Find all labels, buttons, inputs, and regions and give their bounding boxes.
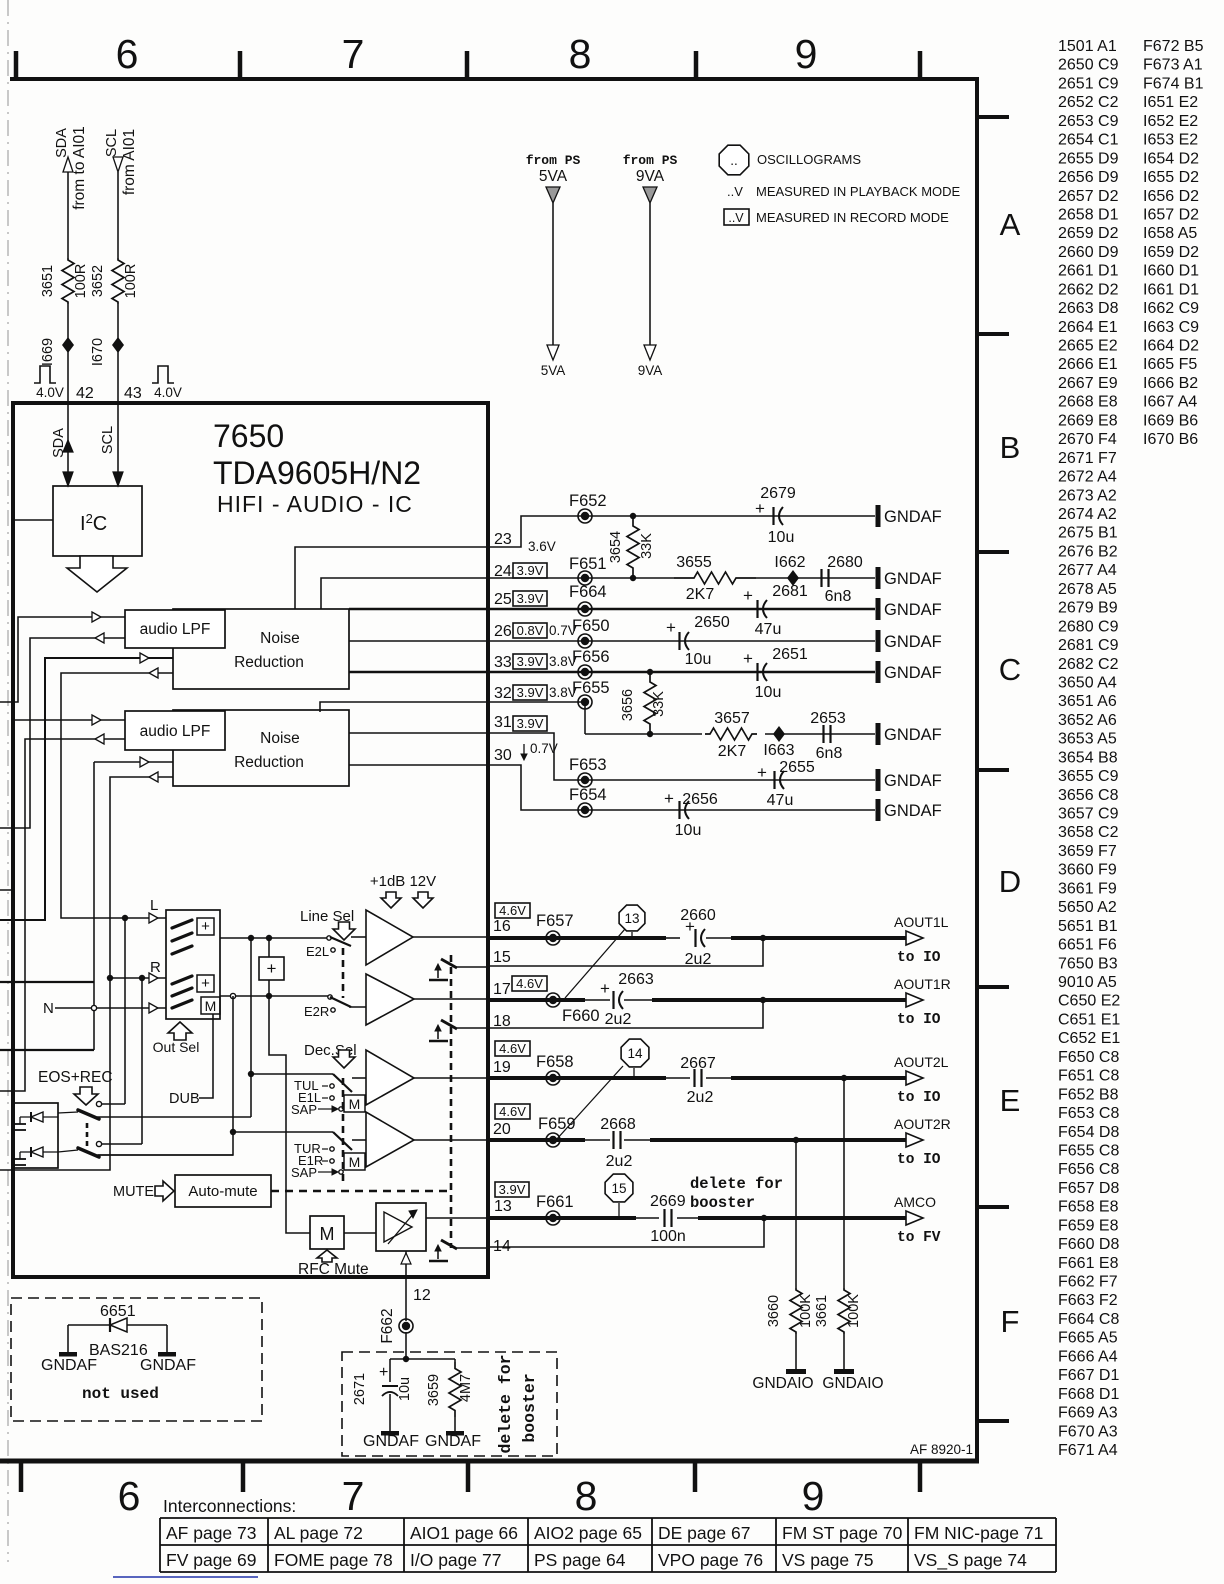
svg-text:Reduction: Reduction <box>234 754 304 771</box>
svg-text:L: L <box>150 897 158 914</box>
svg-text:F671 A4: F671 A4 <box>1058 1442 1118 1459</box>
svg-text:SDA: SDA <box>51 428 67 458</box>
svg-text:SAP: SAP <box>291 1102 317 1117</box>
svg-text:F654 D8: F654 D8 <box>1058 1124 1119 1141</box>
svg-text:3657 C9: 3657 C9 <box>1058 806 1119 823</box>
svg-text:8: 8 <box>575 1473 598 1519</box>
svg-text:3651: 3651 <box>40 265 56 297</box>
svg-text:F656 C8: F656 C8 <box>1058 1161 1119 1178</box>
svg-text:to IO: to IO <box>897 950 941 966</box>
svg-text:F670 A3: F670 A3 <box>1058 1423 1118 1440</box>
svg-text:2651: 2651 <box>772 646 808 663</box>
svg-text:F668 D1: F668 D1 <box>1058 1386 1119 1403</box>
svg-text:2654 C1: 2654 C1 <box>1058 132 1119 149</box>
svg-text:2671: 2671 <box>352 1373 368 1405</box>
svg-text:C: C <box>999 652 1021 687</box>
svg-text:SDA: SDA <box>54 128 70 158</box>
svg-text:6: 6 <box>116 31 139 77</box>
svg-text:3654: 3654 <box>608 531 624 563</box>
svg-text:+: + <box>379 1364 388 1381</box>
svg-text:2652 C2: 2652 C2 <box>1058 94 1119 111</box>
svg-text:2681: 2681 <box>772 583 808 600</box>
svg-text:F: F <box>1001 1304 1020 1339</box>
svg-text:C651 E1: C651 E1 <box>1058 1011 1120 1028</box>
svg-text:+: + <box>743 649 753 668</box>
svg-text:0.8V: 0.8V <box>517 623 544 638</box>
svg-text:2660 D9: 2660 D9 <box>1058 244 1119 261</box>
svg-text:VPO page 76: VPO page 76 <box>658 1550 763 1570</box>
svg-text:to IO: to IO <box>897 1152 941 1168</box>
svg-text:6: 6 <box>118 1473 141 1519</box>
svg-text:2655: 2655 <box>779 759 815 776</box>
svg-text:I658 A5: I658 A5 <box>1143 225 1197 242</box>
svg-text:2655 D9: 2655 D9 <box>1058 150 1119 167</box>
svg-text:..: .. <box>730 153 738 168</box>
svg-text:C650 E2: C650 E2 <box>1058 993 1120 1010</box>
svg-text:M: M <box>320 1224 335 1244</box>
svg-text:F664 C8: F664 C8 <box>1058 1311 1119 1328</box>
svg-text:15: 15 <box>611 1181 626 1196</box>
svg-text:from PS: from PS <box>526 153 581 168</box>
svg-text:E: E <box>1000 1083 1021 1118</box>
svg-text:from AI01: from AI01 <box>121 129 138 195</box>
svg-text:23: 23 <box>494 531 512 548</box>
svg-text:1501 A1: 1501 A1 <box>1058 38 1117 55</box>
svg-text:Auto-mute: Auto-mute <box>188 1183 257 1200</box>
svg-text:Noise: Noise <box>260 630 300 647</box>
svg-text:3.6V: 3.6V <box>528 539 556 554</box>
svg-text:13: 13 <box>624 911 639 926</box>
svg-text:from to AI01: from to AI01 <box>71 126 88 210</box>
svg-text:3660: 3660 <box>766 1295 782 1327</box>
svg-text:MUTE: MUTE <box>113 1184 154 1200</box>
svg-text:I661 D1: I661 D1 <box>1143 281 1199 298</box>
svg-text:2669: 2669 <box>650 1193 686 1210</box>
svg-text:audio LPF: audio LPF <box>140 723 211 740</box>
svg-text:3655: 3655 <box>676 554 712 571</box>
svg-text:2679: 2679 <box>760 485 796 502</box>
svg-text:2673 A2: 2673 A2 <box>1058 487 1117 504</box>
svg-text:2659 D2: 2659 D2 <box>1058 225 1119 242</box>
svg-text:AF page 73: AF page 73 <box>166 1523 256 1543</box>
svg-text:DE page 67: DE page 67 <box>658 1523 750 1543</box>
svg-text:2u2: 2u2 <box>687 1089 714 1106</box>
svg-text:9VA: 9VA <box>636 168 665 185</box>
svg-text:M: M <box>205 998 217 1014</box>
svg-text:3652 A6: 3652 A6 <box>1058 712 1117 729</box>
svg-text:2668: 2668 <box>600 1116 636 1133</box>
svg-text:HIFI - AUDIO - IC: HIFI - AUDIO - IC <box>217 491 413 517</box>
svg-text:F674 B1: F674 B1 <box>1143 75 1204 92</box>
svg-text:2674 A2: 2674 A2 <box>1058 506 1117 523</box>
svg-text:3660 F9: 3660 F9 <box>1058 862 1117 879</box>
svg-text:F663 F2: F663 F2 <box>1058 1292 1118 1309</box>
svg-text:30: 30 <box>494 747 512 764</box>
svg-text:6651: 6651 <box>100 1303 136 1320</box>
svg-text:F657 D8: F657 D8 <box>1058 1180 1119 1197</box>
svg-text:GNDAF: GNDAF <box>884 772 942 790</box>
svg-text:4.0V: 4.0V <box>154 385 182 400</box>
svg-text:2u2: 2u2 <box>606 1153 633 1170</box>
svg-text:5651 B1: 5651 B1 <box>1058 918 1118 935</box>
svg-text:31: 31 <box>494 714 512 731</box>
svg-text:GNDAF: GNDAF <box>140 1357 196 1374</box>
svg-text:AOUT1R: AOUT1R <box>894 976 951 992</box>
svg-text:I/O page 77: I/O page 77 <box>410 1550 501 1570</box>
svg-text:10u: 10u <box>685 651 712 668</box>
svg-text:delete for: delete for <box>496 1354 515 1453</box>
svg-text:2666 E1: 2666 E1 <box>1058 356 1118 373</box>
svg-text:C652 E1: C652 E1 <box>1058 1030 1120 1047</box>
svg-text:2653: 2653 <box>810 710 846 727</box>
svg-text:2653 C9: 2653 C9 <box>1058 113 1119 130</box>
svg-text:5VA: 5VA <box>539 168 568 185</box>
svg-text:6651 F6: 6651 F6 <box>1058 937 1117 954</box>
svg-text:2669 E8: 2669 E8 <box>1058 412 1118 429</box>
svg-text:GNDAF: GNDAF <box>884 802 942 820</box>
svg-text:I666 B2: I666 B2 <box>1143 375 1198 392</box>
svg-text:2663: 2663 <box>618 971 654 988</box>
svg-text:+: + <box>201 918 210 935</box>
svg-text:SAP: SAP <box>291 1165 317 1180</box>
svg-text:3.9V: 3.9V <box>517 716 544 731</box>
svg-text:2662 D2: 2662 D2 <box>1058 281 1119 298</box>
svg-text:47u: 47u <box>755 621 782 638</box>
svg-text:I657 D2: I657 D2 <box>1143 206 1199 223</box>
svg-text:..V: ..V <box>727 184 743 199</box>
svg-text:GNDAF: GNDAF <box>363 1433 419 1450</box>
svg-text:GNDAF: GNDAF <box>884 726 942 744</box>
svg-text:2660: 2660 <box>680 907 716 924</box>
svg-text:AMCO: AMCO <box>894 1194 936 1210</box>
svg-text:R: R <box>150 959 161 976</box>
svg-text:10u: 10u <box>675 822 702 839</box>
svg-text:2680 C9: 2680 C9 <box>1058 618 1119 635</box>
svg-text:F665 A5: F665 A5 <box>1058 1330 1118 1347</box>
svg-text:I664 D2: I664 D2 <box>1143 338 1199 355</box>
svg-text:5650 A2: 5650 A2 <box>1058 899 1117 916</box>
svg-text:33K: 33K <box>639 533 655 559</box>
svg-text:47u: 47u <box>767 792 794 809</box>
svg-text:2651 C9: 2651 C9 <box>1058 75 1119 92</box>
svg-text:9: 9 <box>802 1473 825 1519</box>
svg-text:3653 A5: 3653 A5 <box>1058 731 1117 748</box>
svg-text:delete for: delete for <box>690 1175 783 1193</box>
svg-text:audio LPF: audio LPF <box>140 621 211 638</box>
svg-text:GNDAIO: GNDAIO <box>752 1375 813 1392</box>
svg-text:10u: 10u <box>768 529 795 546</box>
svg-text:F666 A4: F666 A4 <box>1058 1348 1118 1365</box>
svg-text:I653 E2: I653 E2 <box>1143 132 1198 149</box>
svg-text:9VA: 9VA <box>638 363 663 378</box>
svg-text:100R: 100R <box>123 264 139 299</box>
svg-text:14: 14 <box>627 1046 643 1061</box>
svg-text:2680: 2680 <box>827 554 863 571</box>
svg-text:GNDAF: GNDAF <box>41 1357 97 1374</box>
svg-text:AL page 72: AL page 72 <box>274 1523 363 1543</box>
svg-text:2657 D2: 2657 D2 <box>1058 188 1119 205</box>
svg-text:AOUT1L: AOUT1L <box>894 914 949 930</box>
svg-text:16: 16 <box>493 918 511 935</box>
svg-text:19: 19 <box>493 1059 511 1076</box>
svg-text:2656: 2656 <box>682 791 718 808</box>
svg-text:to IO: to IO <box>897 1012 941 1028</box>
svg-text:..V: ..V <box>728 211 744 225</box>
svg-text:3659 F7: 3659 F7 <box>1058 843 1117 860</box>
svg-text:3661: 3661 <box>814 1295 830 1327</box>
svg-text:GNDAIO: GNDAIO <box>822 1375 883 1392</box>
svg-text:9: 9 <box>795 31 818 77</box>
svg-text:+: + <box>666 618 676 637</box>
svg-text:F655: F655 <box>572 679 610 697</box>
svg-text:2K7: 2K7 <box>718 743 747 760</box>
svg-text:2672 A4: 2672 A4 <box>1058 469 1117 486</box>
svg-text:3652: 3652 <box>90 265 106 297</box>
svg-text:F650 C8: F650 C8 <box>1058 1049 1119 1066</box>
svg-text:9010 A5: 9010 A5 <box>1058 974 1117 991</box>
svg-text:3650 A4: 3650 A4 <box>1058 674 1117 691</box>
svg-text:GNDAF: GNDAF <box>425 1433 481 1450</box>
svg-text:AIO1 page 66: AIO1 page 66 <box>410 1523 518 1543</box>
svg-text:4.0V: 4.0V <box>36 385 64 400</box>
svg-text:I660 D1: I660 D1 <box>1143 263 1199 280</box>
svg-text:EOS+REC: EOS+REC <box>38 1069 113 1086</box>
svg-text:I669 B6: I669 B6 <box>1143 412 1198 429</box>
svg-text:6n8: 6n8 <box>816 745 843 762</box>
svg-text:I665 F5: I665 F5 <box>1143 356 1197 373</box>
svg-text:7: 7 <box>342 31 365 77</box>
svg-text:FOME page 78: FOME page 78 <box>274 1550 393 1570</box>
svg-text:F654: F654 <box>569 786 607 804</box>
svg-text:E2R: E2R <box>304 1004 329 1019</box>
svg-text:FM NIC-page 71: FM NIC-page 71 <box>914 1523 1043 1543</box>
svg-text:32: 32 <box>494 685 512 702</box>
svg-text:2656 D9: 2656 D9 <box>1058 169 1119 186</box>
svg-text:2678 A5: 2678 A5 <box>1058 581 1117 598</box>
svg-text:SCL: SCL <box>104 129 120 157</box>
svg-text:F667 D1: F667 D1 <box>1058 1367 1119 1384</box>
svg-text:F655 C8: F655 C8 <box>1058 1142 1119 1159</box>
svg-text:VS_S page 74: VS_S page 74 <box>914 1550 1027 1571</box>
svg-text:100n: 100n <box>650 1228 686 1245</box>
svg-text:I669: I669 <box>40 338 56 366</box>
svg-text:2676 B2: 2676 B2 <box>1058 543 1118 560</box>
svg-text:Noise: Noise <box>260 730 300 747</box>
svg-text:TDA9605H/N2: TDA9605H/N2 <box>213 455 421 491</box>
svg-text:not used: not used <box>82 1385 159 1403</box>
svg-text:FV page 69: FV page 69 <box>166 1550 256 1570</box>
svg-text:3661 F9: 3661 F9 <box>1058 880 1117 897</box>
svg-text:RFC Mute: RFC Mute <box>298 1261 369 1278</box>
svg-text:100K: 100K <box>846 1294 862 1328</box>
svg-text:15: 15 <box>493 949 511 966</box>
svg-text:2671 F7: 2671 F7 <box>1058 450 1117 467</box>
svg-text:2675 B1: 2675 B1 <box>1058 525 1118 542</box>
svg-text:I667 A4: I667 A4 <box>1143 394 1197 411</box>
svg-text:F658 E8: F658 E8 <box>1058 1199 1119 1216</box>
svg-text:3657: 3657 <box>714 710 750 727</box>
svg-text:F660: F660 <box>562 1007 600 1025</box>
svg-text:F656: F656 <box>572 648 610 666</box>
svg-text:I662: I662 <box>774 554 805 571</box>
svg-text:+: + <box>267 959 277 978</box>
svg-text:2681 C9: 2681 C9 <box>1058 637 1119 654</box>
svg-text:3.9V: 3.9V <box>517 563 544 578</box>
svg-text:I659 D2: I659 D2 <box>1143 244 1199 261</box>
svg-text:100R: 100R <box>73 264 89 299</box>
svg-text:2668 E8: 2668 E8 <box>1058 394 1118 411</box>
svg-text:2667: 2667 <box>680 1055 716 1072</box>
svg-text:I662 C9: I662 C9 <box>1143 300 1199 317</box>
svg-text:2670 F4: 2670 F4 <box>1058 431 1117 448</box>
svg-text:from PS: from PS <box>623 153 678 168</box>
svg-text:I670: I670 <box>90 338 106 366</box>
svg-text:4M7: 4M7 <box>458 1374 474 1402</box>
svg-text:2682 C2: 2682 C2 <box>1058 656 1119 673</box>
svg-text:2661 D1: 2661 D1 <box>1058 263 1119 280</box>
svg-text:4.6V: 4.6V <box>499 1041 526 1056</box>
svg-text:F662 F7: F662 F7 <box>1058 1274 1118 1291</box>
svg-text:I670 B6: I670 B6 <box>1143 431 1198 448</box>
svg-text:2650 C9: 2650 C9 <box>1058 57 1119 74</box>
svg-text:GNDAF: GNDAF <box>884 508 942 526</box>
svg-text:3.9V: 3.9V <box>499 1182 526 1197</box>
svg-text:43: 43 <box>124 385 142 402</box>
svg-text:F657: F657 <box>536 912 574 930</box>
svg-text:+: + <box>743 586 753 605</box>
svg-text:2663 D8: 2663 D8 <box>1058 300 1119 317</box>
svg-text:M: M <box>349 1096 361 1112</box>
svg-text:to IO: to IO <box>897 1090 941 1106</box>
svg-text:+: + <box>755 499 765 518</box>
svg-text:I656 D2: I656 D2 <box>1143 188 1199 205</box>
svg-text:I663 C9: I663 C9 <box>1143 319 1199 336</box>
svg-text:2665 E2: 2665 E2 <box>1058 338 1118 355</box>
svg-text:to FV: to FV <box>897 1230 941 1246</box>
svg-text:F660 D8: F660 D8 <box>1058 1236 1119 1253</box>
svg-text:VS page 75: VS page 75 <box>782 1550 873 1570</box>
svg-text:F658: F658 <box>536 1053 574 1071</box>
svg-text:OSCILLOGRAMS: OSCILLOGRAMS <box>757 152 861 167</box>
svg-text:Reduction: Reduction <box>234 654 304 671</box>
svg-text:F651 C8: F651 C8 <box>1058 1068 1119 1085</box>
svg-text:42: 42 <box>76 385 94 402</box>
svg-text:GNDAF: GNDAF <box>884 633 942 651</box>
svg-text:2658 D1: 2658 D1 <box>1058 206 1119 223</box>
svg-text:GNDAF: GNDAF <box>884 664 942 682</box>
svg-text:M: M <box>349 1154 361 1170</box>
svg-text:F653: F653 <box>569 756 607 774</box>
svg-text:Out Sel: Out Sel <box>153 1039 200 1055</box>
svg-text:F652 B8: F652 B8 <box>1058 1086 1119 1103</box>
svg-text:12: 12 <box>413 1287 431 1304</box>
svg-text:F672 B5: F672 B5 <box>1143 38 1204 55</box>
svg-text:F659 E8: F659 E8 <box>1058 1217 1119 1234</box>
svg-text:2677 A4: 2677 A4 <box>1058 562 1117 579</box>
svg-text:100K: 100K <box>798 1294 814 1328</box>
svg-text:Interconnections:: Interconnections: <box>163 1496 296 1516</box>
svg-text:GNDAF: GNDAF <box>884 601 942 619</box>
svg-text:3655 C9: 3655 C9 <box>1058 768 1119 785</box>
svg-text:F669 A3: F669 A3 <box>1058 1405 1118 1422</box>
svg-text:3658 C2: 3658 C2 <box>1058 824 1119 841</box>
svg-text:BAS216: BAS216 <box>89 1342 148 1359</box>
svg-text:24: 24 <box>494 563 512 580</box>
svg-text:GNDAF: GNDAF <box>884 570 942 588</box>
svg-text:0.7V: 0.7V <box>530 741 558 756</box>
svg-text:I2C: I2C <box>80 511 107 535</box>
svg-text:13: 13 <box>494 1198 512 1215</box>
svg-text:4.6V: 4.6V <box>499 1104 526 1119</box>
svg-text:DUB: DUB <box>169 1091 200 1107</box>
svg-text:F661: F661 <box>536 1193 574 1211</box>
svg-text:MEASURED IN RECORD MODE: MEASURED IN RECORD MODE <box>756 210 949 225</box>
svg-text:20: 20 <box>493 1121 511 1138</box>
svg-text:I654 D2: I654 D2 <box>1143 150 1199 167</box>
svg-text:2u2: 2u2 <box>605 1011 632 1028</box>
svg-text:I652 E2: I652 E2 <box>1143 113 1198 130</box>
svg-text:F659: F659 <box>538 1115 576 1133</box>
svg-text:AOUT2L: AOUT2L <box>894 1054 949 1070</box>
svg-text:2650: 2650 <box>694 614 730 631</box>
svg-text:17: 17 <box>493 981 511 998</box>
svg-text:4.6V: 4.6V <box>499 903 526 918</box>
svg-text:I651 E2: I651 E2 <box>1143 94 1198 111</box>
svg-text:A: A <box>1000 207 1021 242</box>
svg-text:33K: 33K <box>651 691 667 717</box>
svg-text:3.9V: 3.9V <box>517 685 544 700</box>
svg-text:3659: 3659 <box>426 1374 442 1406</box>
svg-text:4.6V: 4.6V <box>516 976 543 991</box>
svg-text:I663: I663 <box>763 742 794 759</box>
svg-text:F662: F662 <box>379 1308 396 1343</box>
svg-text:I655 D2: I655 D2 <box>1143 169 1199 186</box>
svg-text:2K7: 2K7 <box>686 586 715 603</box>
svg-text:26: 26 <box>494 623 512 640</box>
svg-text:SCL: SCL <box>100 426 116 454</box>
svg-text:+: + <box>201 975 210 992</box>
svg-text:+: + <box>600 979 610 998</box>
svg-text:F651: F651 <box>569 555 607 573</box>
svg-text:D: D <box>999 864 1021 899</box>
svg-text:MEASURED IN PLAYBACK MODE: MEASURED IN PLAYBACK MODE <box>756 184 961 199</box>
svg-text:F653 C8: F653 C8 <box>1058 1105 1119 1122</box>
svg-text:2667 E9: 2667 E9 <box>1058 375 1118 392</box>
svg-text:N: N <box>43 1000 54 1017</box>
svg-text:3651 A6: 3651 A6 <box>1058 693 1117 710</box>
svg-text:25: 25 <box>494 591 512 608</box>
svg-text:2664 E1: 2664 E1 <box>1058 319 1118 336</box>
svg-text:booster: booster <box>690 1194 755 1212</box>
svg-text:AIO2 page 65: AIO2 page 65 <box>534 1523 642 1543</box>
svg-text:7650 B3: 7650 B3 <box>1058 955 1118 972</box>
svg-text:+1dB 12V: +1dB 12V <box>370 873 436 890</box>
svg-text:PS page 64: PS page 64 <box>534 1550 626 1570</box>
svg-text:3656: 3656 <box>620 689 636 721</box>
svg-text:33: 33 <box>494 654 512 671</box>
svg-text:+: + <box>664 789 674 808</box>
svg-text:3.9V: 3.9V <box>517 654 544 669</box>
svg-text:8: 8 <box>569 31 592 77</box>
svg-text:F664: F664 <box>569 583 607 601</box>
svg-text:B: B <box>1000 430 1021 465</box>
svg-text:3654 B8: 3654 B8 <box>1058 749 1118 766</box>
svg-text:10u: 10u <box>397 1377 413 1401</box>
svg-text:AOUT2R: AOUT2R <box>894 1116 951 1132</box>
svg-text:E2L: E2L <box>306 944 329 959</box>
svg-text:booster: booster <box>520 1373 539 1442</box>
svg-text:F673 A1: F673 A1 <box>1143 57 1203 74</box>
